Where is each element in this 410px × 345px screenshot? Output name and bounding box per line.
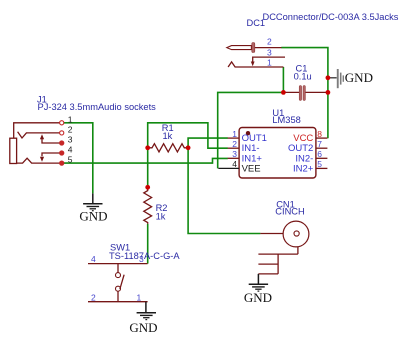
C1 right plate <box>303 86 305 101</box>
svg-text:3: 3 <box>267 47 272 57</box>
capacitor C1 <box>283 63 328 100</box>
CN1 lead <box>260 233 294 235</box>
J1 pin 1 internal lead <box>14 123 60 138</box>
svg-text:1: 1 <box>137 292 142 302</box>
svg-text:2: 2 <box>91 292 96 302</box>
junction R2 top <box>145 185 150 190</box>
svg-text:4: 4 <box>91 254 96 264</box>
svg-text:8: 8 <box>317 129 322 139</box>
svg-text:IN2+: IN2+ <box>293 164 314 175</box>
U1 pin 1 stub <box>228 137 240 139</box>
C1 right lead <box>305 91 328 93</box>
junction GND flag <box>326 75 331 80</box>
J1 pin circle 5 <box>60 161 64 165</box>
U1 pin 3 stub <box>228 157 240 159</box>
C1 left lead <box>283 91 299 93</box>
junction R1 right <box>186 145 191 150</box>
wire U1 OUT1 to R1 right and CN1 <box>188 138 260 233</box>
svg-text:PJ-324 3.5mmAudio sockets: PJ-324 3.5mmAudio sockets <box>38 102 157 112</box>
U1 pin 6 stub <box>316 157 328 159</box>
svg-text:DCConnector/DC-003A 3.5Jacks: DCConnector/DC-003A 3.5Jacks <box>263 12 399 22</box>
SW1 bottom contact line pins 2-1 <box>88 301 148 303</box>
connector J1 <box>10 94 156 165</box>
svg-text:GND: GND <box>345 70 373 85</box>
ground symbol under SW1 <box>137 302 156 320</box>
J1 pin 4 lead with arrow <box>42 153 60 156</box>
DC1 sleeve bar <box>252 43 255 53</box>
DC1 center pin arrow <box>227 46 252 50</box>
op-amp U1 <box>218 108 327 178</box>
svg-text:1: 1 <box>68 114 73 124</box>
U1 pin 2 stub <box>228 147 240 149</box>
svg-text:LM358: LM358 <box>272 115 300 125</box>
CN1 shield comb <box>258 247 298 274</box>
C1 left plate <box>299 86 301 101</box>
resistor R2 <box>144 187 152 224</box>
svg-text:1k: 1k <box>163 131 173 141</box>
svg-text:1k: 1k <box>156 212 166 222</box>
svg-text:0.1u: 0.1u <box>294 72 312 82</box>
J1 pin 2 tip contact <box>18 132 60 138</box>
CN1 outer circle <box>283 221 309 247</box>
resistor R1 <box>148 144 188 152</box>
J1 pin circle 3 <box>60 141 64 145</box>
wire DC1 pin2 to GND flag, C1 right, U1 VCC <box>281 48 328 139</box>
J1 pin circle 4 <box>60 151 64 155</box>
svg-text:2: 2 <box>232 139 237 149</box>
U1 pin 7 stub <box>316 147 328 149</box>
svg-text:1: 1 <box>232 129 237 139</box>
DC1 pin 2 lead <box>255 47 282 49</box>
svg-text:CINCH: CINCH <box>275 206 304 216</box>
svg-text:GND: GND <box>129 320 157 335</box>
SW1 contact circle upper <box>116 273 121 278</box>
DC1 pin 1 lead with bump <box>228 62 283 67</box>
J1 pin circle 2 <box>60 131 64 135</box>
U1 pin 5 stub <box>316 167 328 169</box>
wire J1 pin1 to GND <box>64 123 93 194</box>
switch SW1 <box>88 242 180 302</box>
SW1 contact circle lower <box>116 286 121 291</box>
svg-text:5: 5 <box>317 159 322 169</box>
U1 pin1 marker dot <box>246 131 250 135</box>
ground symbol under J1 <box>83 193 102 210</box>
svg-text:3: 3 <box>68 135 73 145</box>
svg-text:7: 7 <box>317 139 322 149</box>
svg-text:1: 1 <box>267 58 272 68</box>
wire R2 top / R1 left to U1 IN1- <box>148 123 228 188</box>
svg-text:4: 4 <box>232 159 237 169</box>
svg-text:GND: GND <box>244 290 272 305</box>
ground symbol under CN1 <box>249 274 268 291</box>
connector CN1 CINCH <box>258 199 309 274</box>
svg-text:2: 2 <box>267 36 272 46</box>
J1 barrel rectangle <box>10 138 17 163</box>
SW1 upper lead <box>117 264 119 273</box>
GND power flag at DC1 <box>329 69 344 88</box>
wire J1 pin5 to U1 IN1+ <box>64 158 228 163</box>
J1 pin 3 lead with arrow <box>42 138 60 143</box>
svg-text:3: 3 <box>232 149 237 159</box>
wire R2 bottom to SW1 <box>147 224 149 264</box>
U1 pin 4 stub black <box>218 167 239 169</box>
svg-text:6: 6 <box>317 149 322 159</box>
U1 pin 8 stub <box>316 137 328 139</box>
wire VEE net C1 left to DC1 pin1 and U1 pin4 <box>218 67 284 168</box>
junction C1 right <box>326 90 331 95</box>
SW1 lever <box>120 275 124 289</box>
U1 body <box>239 128 316 179</box>
SW1 lower lead <box>117 291 119 301</box>
J1 pin circle 1 <box>60 121 64 125</box>
DC1 pin 3 lead with arrow <box>253 57 285 62</box>
DC connector DC1 <box>227 12 399 68</box>
junction C1 left / DC1 pin1 <box>281 90 286 95</box>
svg-text:VEE: VEE <box>242 164 261 175</box>
J1 pin 5 lead with bump <box>17 158 60 163</box>
CN1 center pin circle <box>294 231 299 236</box>
svg-text:4: 4 <box>68 145 73 155</box>
SW1 top contact line pins 4-3 <box>88 263 148 265</box>
svg-text:2: 2 <box>68 124 73 134</box>
svg-text:TS-1187A-C-G-A: TS-1187A-C-G-A <box>109 251 180 261</box>
svg-text:5: 5 <box>68 155 73 165</box>
junction R1 left <box>145 145 150 150</box>
svg-text:GND: GND <box>79 208 107 223</box>
